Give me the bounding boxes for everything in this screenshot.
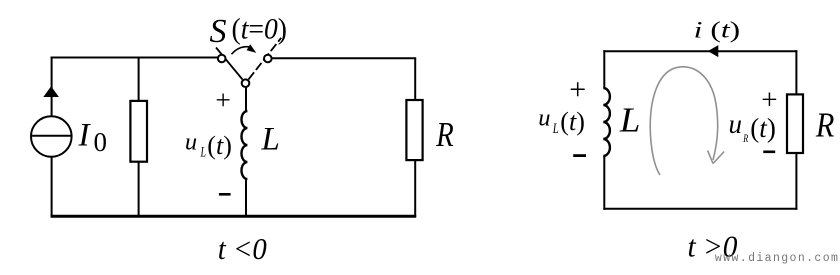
svg-text:L: L	[619, 100, 641, 139]
wire resistor branch upper	[414, 58, 416, 100]
wire right upper	[795, 50, 797, 95]
current arrow i(t)	[708, 45, 719, 57]
minus sign (uL right)	[573, 154, 586, 157]
minus sign (uR)	[763, 151, 775, 154]
svg-text:t >0: t >0	[688, 228, 738, 263]
wire bottom	[51, 215, 417, 218]
svg-text:I: I	[78, 118, 92, 154]
inductor L coil	[242, 111, 248, 179]
wire left upper	[603, 50, 605, 88]
wire right lower	[795, 153, 797, 210]
resistor (unlabeled) body	[130, 101, 147, 162]
current source I0 circle	[31, 116, 72, 157]
inductor L coil (right circuit)	[603, 88, 610, 156]
switch S dashed blade (open position)	[249, 38, 282, 80]
switch S pivot terminal	[242, 79, 250, 87]
wire top	[603, 50, 797, 52]
wire bottom	[603, 208, 797, 210]
switch S blade (closed position)	[216, 48, 243, 80]
svg-text:(t): (t)	[207, 131, 232, 160]
svg-text:t <0: t <0	[218, 231, 267, 266]
svg-text:+: +	[215, 84, 231, 115]
resistor R body (right circuit)	[787, 94, 803, 153]
mesh current loop arrowhead	[708, 151, 725, 164]
svg-text:0: 0	[94, 127, 108, 157]
wire middle branch upper	[138, 58, 140, 102]
svg-text:www.diangon.com: www.diangon.com	[715, 252, 838, 265]
switch S right terminal	[264, 55, 272, 63]
mesh current loop arrow	[650, 67, 717, 175]
svg-text:R: R	[815, 106, 834, 145]
wire switch to inductor	[245, 86, 247, 111]
resistor R body	[406, 100, 422, 160]
wire middle branch lower	[138, 162, 140, 217]
switch S left terminal	[218, 55, 226, 63]
svg-text:R: R	[743, 131, 749, 145]
svg-text:L: L	[552, 121, 559, 137]
svg-text:(t): (t)	[560, 107, 585, 136]
wire left vertical lower	[51, 157, 53, 218]
wire top-left segment	[51, 57, 218, 59]
svg-text:u: u	[538, 105, 550, 132]
svg-text:(t): (t)	[750, 113, 776, 143]
current source I0 bar	[31, 135, 72, 137]
current source I0 arrow	[43, 86, 59, 97]
svg-text:L: L	[261, 122, 280, 158]
svg-text:u: u	[729, 109, 743, 139]
svg-text:+: +	[761, 84, 777, 116]
svg-text:u: u	[185, 128, 197, 155]
wire left lower	[603, 156, 605, 210]
svg-text:S: S	[210, 13, 227, 50]
svg-text:L: L	[200, 145, 206, 161]
wire left vertical upper	[51, 57, 53, 117]
switch S motion arc	[232, 47, 251, 55]
svg-text:(t=0): (t=0)	[232, 12, 288, 45]
wire inductor to bottom	[245, 179, 247, 217]
svg-text:+: +	[569, 73, 586, 106]
svg-text:R: R	[435, 115, 453, 154]
svg-text:i (t): i (t)	[694, 18, 741, 44]
minus sign (uL)	[219, 193, 231, 196]
wire resistor branch lower	[414, 160, 416, 217]
switch S motion arrowhead	[247, 44, 257, 53]
wire top-right segment	[272, 57, 417, 59]
